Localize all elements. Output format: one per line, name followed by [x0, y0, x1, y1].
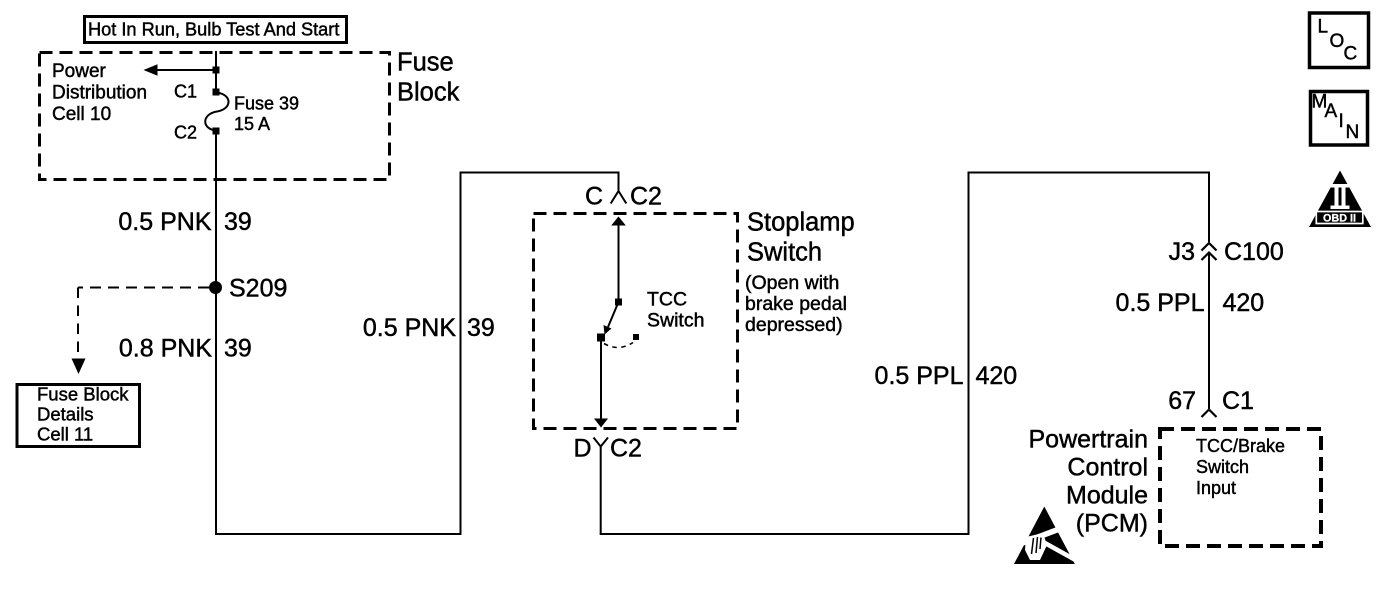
- svg-text:depressed): depressed): [745, 314, 843, 336]
- svg-text:N: N: [1346, 122, 1360, 143]
- svg-text:Cell 10: Cell 10: [52, 104, 111, 125]
- svg-text:L: L: [1318, 17, 1329, 38]
- svg-text:(PCM): (PCM): [1076, 510, 1148, 538]
- svg-text:0.5 PNK: 0.5 PNK: [118, 208, 211, 236]
- svg-text:420: 420: [1223, 289, 1265, 317]
- svg-text:Stoplamp: Stoplamp: [747, 209, 855, 237]
- svg-text:Fuse 39: Fuse 39: [234, 94, 299, 114]
- svg-text:Control: Control: [1067, 454, 1148, 482]
- svg-text:15 A: 15 A: [234, 114, 270, 134]
- svg-text:J3: J3: [1169, 238, 1195, 266]
- svg-text:39: 39: [224, 208, 252, 236]
- svg-text:Powertrain: Powertrain: [1029, 426, 1149, 454]
- svg-text:Input: Input: [1196, 478, 1236, 498]
- svg-text:0.5 PPL: 0.5 PPL: [875, 362, 964, 390]
- svg-text:Switch: Switch: [1196, 457, 1249, 477]
- svg-text:Switch: Switch: [647, 310, 704, 332]
- svg-text:C1: C1: [1222, 387, 1254, 415]
- svg-text:Distribution: Distribution: [52, 83, 147, 104]
- svg-text:Hot In Run, Bulb Test And Star: Hot In Run, Bulb Test And Start: [88, 20, 339, 40]
- svg-text:420: 420: [976, 362, 1018, 390]
- svg-text:Details: Details: [37, 404, 94, 425]
- svg-text:0.8 PNK: 0.8 PNK: [119, 335, 212, 363]
- svg-text:0.5 PNK: 0.5 PNK: [363, 314, 456, 342]
- svg-text:OBD II: OBD II: [1323, 213, 1356, 225]
- svg-text:TCC: TCC: [647, 289, 687, 311]
- svg-text:O: O: [1330, 31, 1345, 52]
- svg-text:C2: C2: [630, 183, 662, 211]
- svg-text:C2: C2: [174, 123, 197, 143]
- svg-text:A: A: [1325, 101, 1338, 122]
- svg-text:Module: Module: [1066, 482, 1148, 510]
- svg-text:brake pedal: brake pedal: [745, 293, 847, 315]
- svg-text:Switch: Switch: [747, 239, 822, 267]
- svg-text:C2: C2: [610, 435, 642, 463]
- svg-text:39: 39: [467, 314, 495, 342]
- svg-text:Block: Block: [397, 79, 460, 107]
- svg-text:D: D: [573, 435, 591, 463]
- svg-text:TCC/Brake: TCC/Brake: [1196, 436, 1285, 456]
- svg-text:(Open with: (Open with: [745, 272, 839, 294]
- svg-text:S209: S209: [229, 275, 287, 303]
- svg-text:0.5 PPL: 0.5 PPL: [1116, 289, 1205, 317]
- svg-text:Fuse Block: Fuse Block: [37, 384, 129, 405]
- svg-text:Cell 11: Cell 11: [37, 424, 93, 445]
- svg-text:67: 67: [1168, 387, 1196, 415]
- svg-text:C100: C100: [1224, 238, 1284, 266]
- svg-text:C1: C1: [174, 82, 197, 102]
- svg-text:C: C: [1344, 44, 1358, 65]
- svg-text:I: I: [1339, 111, 1344, 132]
- svg-text:Fuse: Fuse: [397, 49, 454, 77]
- svg-text:C: C: [585, 183, 603, 211]
- svg-text:Power: Power: [52, 61, 107, 82]
- svg-text:39: 39: [224, 335, 252, 363]
